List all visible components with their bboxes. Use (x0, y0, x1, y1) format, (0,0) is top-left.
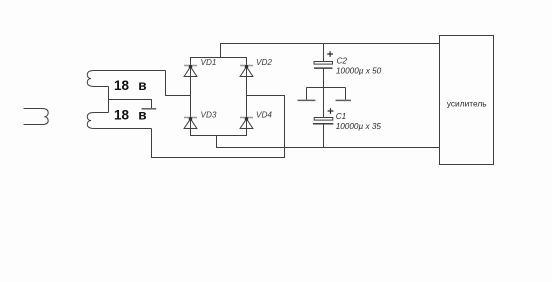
svg-text:C1: C1 (336, 112, 346, 121)
bridge rectifier body (box) (191, 58, 247, 136)
terminal dash: center tap output (142, 108, 157, 110)
capacitor C2 positive plate (314, 62, 333, 65)
svg-text:VD2: VD2 (256, 58, 272, 67)
svg-text:18: 18 (114, 107, 130, 122)
amplifier block (усилитель) (440, 36, 494, 165)
capacitor C1 negative plate (313, 123, 333, 125)
svg-text:в: в (138, 107, 146, 122)
capacitor C1 positive plate (314, 118, 333, 121)
svg-text:VD3: VD3 (201, 110, 217, 119)
transformer T1 primary winding (24, 109, 49, 125)
diode VD2 triangle (240, 67, 253, 77)
terminal dash right (336, 99, 352, 101)
terminal dash left (298, 99, 316, 101)
svg-text:10000µ x 50: 10000µ x 50 (336, 66, 382, 75)
diode VD1 cathode bar (184, 65, 197, 67)
svg-text:18: 18 (114, 78, 130, 93)
wire: W1 bottom to W2 top (winding series link) (108, 87, 110, 113)
capacitor C2 negative plate (314, 67, 333, 69)
junction dot VD3 (189, 117, 193, 121)
wire: W2 bottom lead around to bridge AC input right (152, 96, 285, 158)
svg-text:10000µ x 35: 10000µ x 35 (336, 122, 382, 131)
wire: bridge negative output to amplifier (bottom rail) (217, 136, 440, 148)
diode VD4 cathode bar (240, 117, 253, 119)
plus sign C2 (327, 51, 333, 57)
junction dot VD2 (245, 65, 249, 69)
svg-text:усилитель: усилитель (447, 99, 488, 109)
diode VD2 cathode bar (240, 65, 253, 67)
svg-text:VD1: VD1 (201, 58, 217, 67)
svg-text:в: в (138, 78, 146, 93)
common terminal symbol (between C2 and C1) (307, 88, 346, 100)
junction dot VD4 (245, 117, 249, 121)
svg-text:C2: C2 (337, 57, 348, 66)
svg-text:VD4: VD4 (256, 110, 272, 119)
transformer T1 secondary winding W2 (18 V) (87, 113, 151, 129)
transformer T1 secondary winding W1 (18 V) (87, 71, 165, 87)
wire: center tap branch (109, 100, 152, 109)
junction dot VD1 (189, 65, 193, 69)
wire: W1 top lead to bridge AC input left (166, 71, 191, 96)
wire: capacitor branch vertical (323, 44, 325, 148)
diode VD3 triangle (184, 119, 197, 129)
diode VD3 cathode bar (184, 117, 197, 119)
diode VD4 triangle (240, 119, 253, 129)
wire: bridge positive output to amplifier (top rail) (221, 44, 440, 58)
plus sign C1 (328, 108, 334, 114)
diode VD1 triangle (184, 67, 197, 77)
